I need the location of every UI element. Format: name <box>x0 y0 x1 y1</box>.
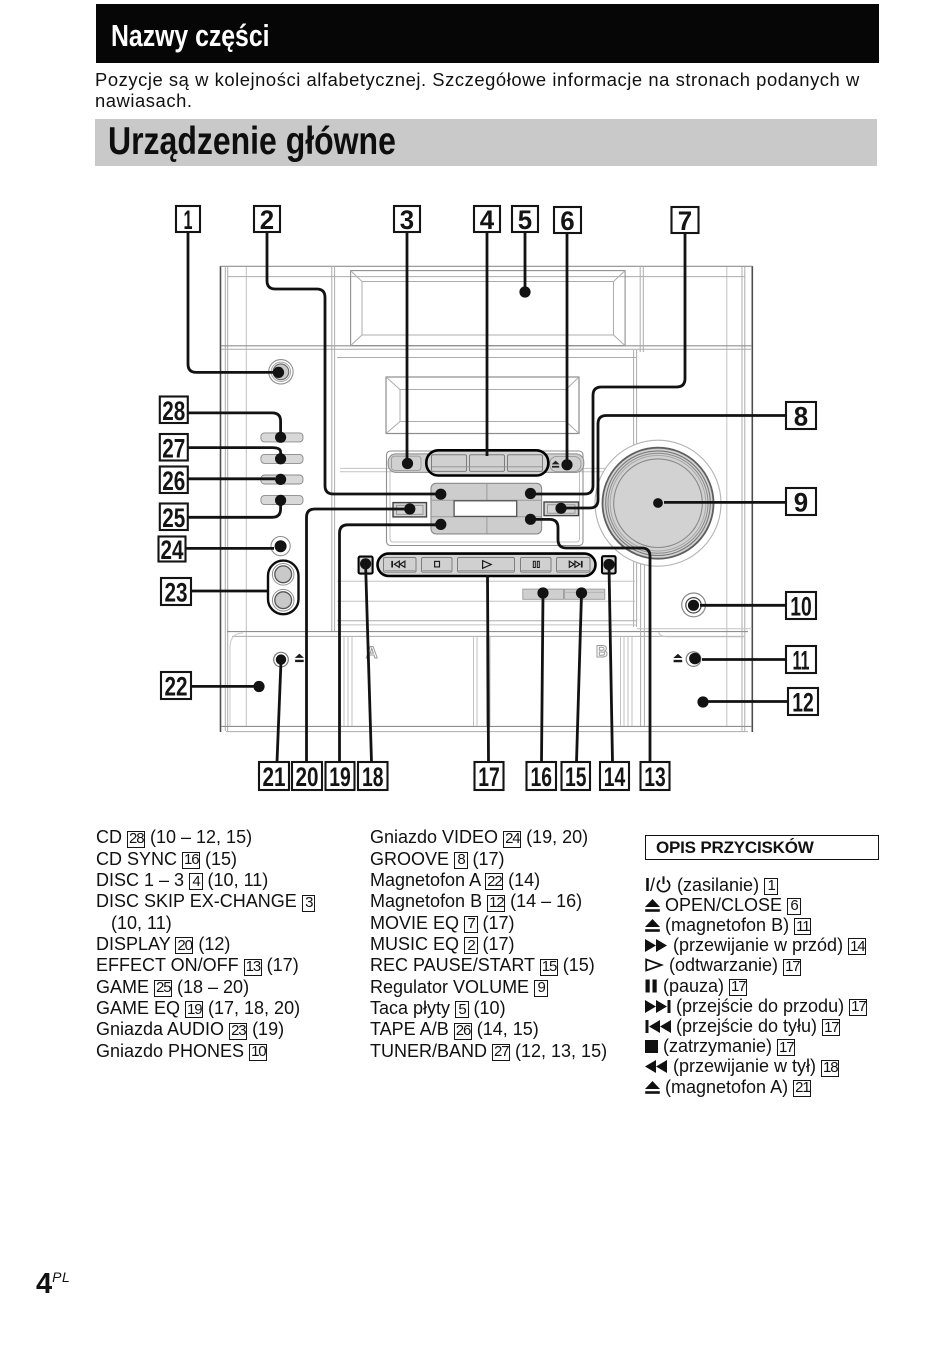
svg-text:2: 2 <box>260 205 274 235</box>
svg-text:27: 27 <box>162 433 185 463</box>
svg-text:8: 8 <box>794 402 808 432</box>
svg-text:4: 4 <box>480 205 495 235</box>
svg-text:11: 11 <box>793 646 810 676</box>
svg-text:15: 15 <box>565 762 587 792</box>
svg-text:16: 16 <box>531 762 553 792</box>
svg-text:28: 28 <box>162 396 185 426</box>
svg-text:25: 25 <box>162 503 185 533</box>
svg-text:6: 6 <box>560 206 574 236</box>
svg-text:7: 7 <box>678 206 692 236</box>
svg-text:18: 18 <box>362 762 384 792</box>
svg-text:3: 3 <box>400 205 414 235</box>
svg-text:21: 21 <box>263 762 286 792</box>
svg-text:14: 14 <box>604 762 626 792</box>
svg-text:B: B <box>596 643 608 661</box>
svg-text:26: 26 <box>162 466 185 496</box>
svg-text:19: 19 <box>329 762 351 792</box>
svg-text:13: 13 <box>644 762 666 792</box>
svg-text:9: 9 <box>794 488 808 518</box>
svg-text:20: 20 <box>296 762 319 792</box>
svg-text:5: 5 <box>518 205 532 235</box>
svg-text:22: 22 <box>165 672 188 702</box>
svg-text:17: 17 <box>478 762 500 792</box>
svg-text:24: 24 <box>161 535 184 565</box>
svg-text:10: 10 <box>790 592 812 622</box>
svg-text:12: 12 <box>792 688 814 718</box>
svg-text:1: 1 <box>184 205 193 235</box>
svg-text:23: 23 <box>165 578 188 608</box>
